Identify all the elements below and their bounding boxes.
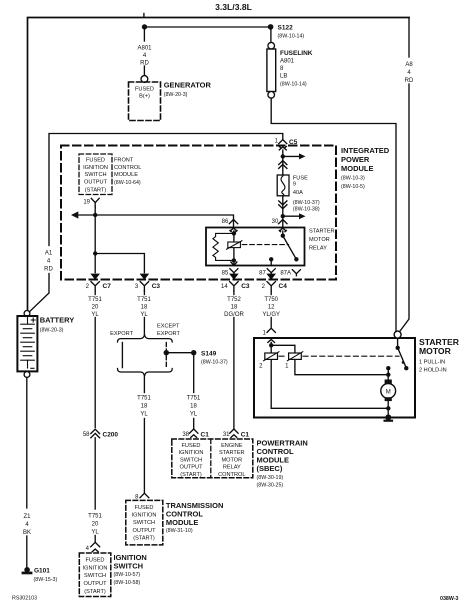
label INTEGRATED POWER MODULE [341,146,390,190]
svg-text:(8W-10-37): (8W-10-37) [201,360,228,366]
svg-text:STARTER: STARTER [309,228,335,234]
svg-text:RD: RD [44,267,53,273]
fuselink A801 8 LB [270,30,272,43]
TCM pin 8 [135,493,149,500]
svg-text:87A: 87A [280,270,291,276]
integrated power module dashed box [61,146,336,280]
svg-text:(8W-15-3): (8W-15-3) [34,577,58,583]
svg-text:SWITCH: SWITCH [180,457,202,463]
label STARTER MOTOR [419,337,460,374]
svg-text:T751: T751 [137,396,151,402]
svg-text:G101: G101 [34,568,50,575]
svg-text:(8W-10-37): (8W-10-37) [293,200,320,206]
svg-text:RS302103: RS302103 [12,596,37,602]
svg-text:DG/OR: DG/OR [224,312,244,318]
svg-text:(8W-10-38): (8W-10-38) [293,206,320,212]
svg-text:20: 20 [92,305,99,311]
svg-text:A1: A1 [45,251,53,257]
svg-text:MODULE: MODULE [114,172,138,178]
svg-text:T750: T750 [264,297,278,303]
svg-text:12: 12 [268,305,275,311]
PCM pin 38 C1 [182,429,209,438]
svg-text:C3: C3 [152,283,161,290]
svg-text:A8: A8 [405,62,413,68]
relay pin 87A exit [280,270,300,277]
junction dot on except-export branch [164,350,169,355]
svg-text:(8W-10-58): (8W-10-58) [114,580,141,586]
svg-text:9: 9 [293,182,296,188]
IPM exit 14 C3 [221,274,250,291]
starter B+ stud [394,331,401,338]
relay switch contact [281,234,285,238]
wire A1 feed to C5 [49,134,283,246]
wire ground bus hold-in [271,407,388,409]
svg-text:YL: YL [91,530,99,536]
svg-text:EXCEPT: EXCEPT [157,324,180,330]
svg-text:20: 20 [92,522,99,528]
IPM exit 2 C4 [262,274,288,291]
svg-text:YL: YL [140,312,148,318]
branch arrow left [78,214,95,216]
svg-text:GENERATOR: GENERATOR [164,81,212,90]
fuse clip lower double chevron [279,201,287,209]
export split brace top [118,334,173,342]
svg-text:(8W-10-5): (8W-10-5) [341,184,365,190]
junction dot [93,213,97,217]
mechanical linkage dashed [242,244,288,246]
svg-text:2 HOLD-IN: 2 HOLD-IN [419,368,447,374]
wire T751 18 YL S149 to PCM [193,355,195,392]
svg-text:EXPORT: EXPORT [157,331,180,337]
wire fused ignition switch output (start) vertical [94,207,96,272]
svg-text:(8W-10-14): (8W-10-14) [280,81,307,87]
svg-text:C1: C1 [201,431,210,438]
label BATTERY [40,315,75,333]
junction dot ground bus [386,406,390,410]
svg-text:T751: T751 [88,514,102,520]
svg-text:58: 58 [83,432,90,438]
svg-text:T751: T751 [187,396,201,402]
svg-text:18: 18 [141,404,148,410]
svg-text:MOTOR: MOTOR [419,346,452,356]
pull-in coil 1 [289,353,302,359]
svg-text:85: 85 [222,270,229,276]
wire branch to relay pin 86 [95,215,233,227]
wire branch to C3 exit [95,254,144,273]
svg-text:MODULE: MODULE [166,518,199,527]
svg-text:038W-3: 038W-3 [440,596,458,602]
battery terminal circle top [24,311,30,317]
relay pin 86 [222,219,238,232]
wire C5 to fuse [282,150,284,175]
svg-text:19: 19 [83,200,90,206]
svg-text:(8W-30-19): (8W-30-19) [257,475,284,481]
svg-text:SWITCH: SWITCH [84,172,106,178]
svg-text:RD: RD [140,61,149,67]
svg-text:(START): (START) [84,589,106,595]
relay pin 85 exit [222,262,238,277]
wire T750 12 YL/GY column 2 C4 to starter [270,291,272,295]
svg-text:RELAY: RELAY [309,245,327,251]
svg-text:(SBEC): (SBEC) [257,464,283,473]
wire fuselink to starter B+ stud [271,98,396,331]
junction dot generator branch [142,24,147,29]
svg-text:SWITCH: SWITCH [133,520,155,526]
svg-text:(START): (START) [133,535,155,541]
ignition switch pin 4 [86,542,100,552]
svg-text:ENGINE: ENGINE [221,443,243,449]
svg-text:30: 30 [272,219,279,225]
svg-text:87: 87 [259,270,266,276]
svg-text:FUSELINK: FUSELINK [280,50,313,57]
svg-text:IGNITION: IGNITION [179,450,204,456]
svg-text:OUTPUT: OUTPUT [133,528,157,534]
label STARTER MOTOR RELAY [309,228,335,251]
wire fuse to relay pin 30 [282,196,284,227]
svg-text:3.3L/3.8L: 3.3L/3.8L [215,2,252,12]
IPM exit 2 C7 [86,274,112,291]
svg-text:86: 86 [222,219,229,225]
IPM exit 3 C3 [135,274,161,291]
svg-text:POWER: POWER [341,155,370,164]
solenoid contact upper [397,338,399,347]
export merge brace bottom [118,369,173,377]
svg-text:S149: S149 [201,351,217,358]
svg-text:IGNITION: IGNITION [132,513,157,519]
pin 19 connector [83,198,99,207]
svg-text:T752: T752 [227,297,241,303]
svg-text:18: 18 [190,404,197,410]
svg-text:Z1: Z1 [23,514,31,520]
svg-text:FUSED: FUSED [86,558,105,564]
wire T752 18 DG/OR column 14 C3 to PCM [233,291,235,295]
svg-text:B(+): B(+) [139,94,150,100]
svg-text:(8W-20-3): (8W-20-3) [40,328,64,334]
svg-text:C200: C200 [103,432,119,439]
svg-text:(START): (START) [85,187,107,193]
wire hold-in winding 2 [270,342,272,408]
label S122 [278,25,305,40]
svg-text:RD: RD [405,78,414,84]
fuse clip upper double chevron [279,161,287,169]
ground G101 [24,567,30,573]
label A801 4 RD [137,46,152,67]
svg-text:A801: A801 [280,59,295,65]
PCM pin 31 C1 [223,429,250,438]
svg-text:T751: T751 [88,297,102,303]
relay pin 30 [272,219,287,232]
label GENERATOR [164,81,212,98]
svg-text:IGNITION: IGNITION [83,165,108,171]
wire splice bus S122 [145,26,271,28]
junction dot [93,251,97,255]
svg-text:(8W-31-10): (8W-31-10) [166,528,193,534]
svg-text:YL: YL [140,412,148,418]
svg-text:38: 38 [182,432,189,438]
wire export branch [121,343,123,368]
battery terminal circle bottom [24,372,30,378]
relay coil box [228,242,241,248]
svg-text:(8W-20-3): (8W-20-3) [164,92,188,98]
svg-text:LB: LB [280,74,287,80]
generator terminal circle [141,76,148,83]
svg-text:FUSE: FUSE [293,175,308,181]
svg-text:1 PULL-IN: 1 PULL-IN [419,360,445,366]
wire T751 18 YL column C3 to export split [143,291,145,295]
svg-text:MOTOR: MOTOR [221,457,242,463]
wire except-export branch dashed [165,343,167,368]
svg-text:FRONT: FRONT [114,158,134,164]
label A8 4 RD [405,62,414,84]
label POWERTRAIN CONTROL MODULE (SBEC) [257,439,308,489]
svg-text:BATTERY: BATTERY [40,315,75,324]
resistor zigzag [213,233,234,260]
relay pin 87 exit [259,269,275,277]
svg-text:YL: YL [190,412,198,418]
svg-text:MOTOR: MOTOR [309,237,330,243]
connector C200 [83,429,119,438]
fuse 9 40A feed: dot and arrow [281,154,285,158]
svg-text:40A: 40A [293,190,303,196]
relay coil circuit [233,231,235,266]
svg-text:RELAY: RELAY [223,465,241,471]
starter pin 1 [263,328,276,336]
svg-text:C3: C3 [241,283,250,290]
svg-text:(8W-10-64): (8W-10-64) [114,180,141,186]
PCM internal divider [210,439,212,478]
svg-text:(8W-10-14): (8W-10-14) [278,34,305,40]
svg-text:(8W-10-3): (8W-10-3) [341,176,365,182]
svg-text:FUSED: FUSED [182,443,201,449]
solenoid contact motor side [386,366,390,370]
svg-text:CONTROL: CONTROL [218,472,245,478]
wire battery positive rail (top) [28,18,410,311]
svg-text:SWITCH: SWITCH [84,573,106,579]
starter motor relay box [206,228,305,266]
svg-text:FUSED: FUSED [86,158,105,164]
hold-in coil 2 [265,353,278,359]
svg-text:EXPORT: EXPORT [110,331,133,337]
ignition switch dashed box [79,553,111,597]
wire pull-in branch [271,345,295,353]
svg-text:YL: YL [91,312,99,318]
svg-text:C1: C1 [241,431,250,438]
svg-text:IGNITION: IGNITION [83,565,108,571]
svg-text:BK: BK [23,530,31,536]
wire T751 18 YL to TCM [143,376,145,392]
svg-text:FUSED: FUSED [135,87,154,93]
svg-text:OUTPUT: OUTPUT [180,465,204,471]
svg-text:14: 14 [221,284,228,290]
svg-text:(START): (START) [180,472,202,478]
wire T751 20 YL C200 to ignition switch [94,438,96,509]
svg-text:OUTPUT: OUTPUT [84,180,108,186]
svg-text:(8W-10-57): (8W-10-57) [114,572,141,578]
battery [17,316,37,371]
svg-text:18: 18 [231,305,238,311]
svg-text:YL/GY: YL/GY [262,312,280,318]
solenoid linkage dashed [279,355,399,357]
svg-text:M: M [386,389,391,395]
label FRONT CONTROL MODULE [114,158,141,186]
svg-text:STARTER: STARTER [219,450,245,456]
svg-text:(8W-30-25): (8W-30-25) [257,483,284,489]
transmission control module dashed box [126,500,163,545]
label EXCEPT EXPORT [157,324,180,337]
label A1 4 RD [44,251,53,273]
splice S149 [166,352,193,354]
solenoid switch blade [398,348,407,368]
powertrain control module dashed box [172,439,253,478]
starter entry chevron [268,339,275,342]
generator dashed box [129,82,161,121]
wire A8 4 RD to starter motor [408,18,410,58]
motor M [387,375,389,380]
front control module dashed box: FUSED IGNITION SWITCH OUTPUT (START) [79,154,112,195]
svg-text:SWITCH: SWITCH [114,561,144,570]
label IGNITION SWITCH [114,553,147,586]
svg-text:18: 18 [141,305,148,311]
svg-text:S122: S122 [278,25,294,32]
splice S122 dot [268,24,274,30]
connector C5 pin 1 [275,139,298,150]
svg-text:FUSED: FUSED [135,505,154,511]
starter case ground [385,414,391,420]
svg-text:T751: T751 [137,297,151,303]
wire Z1 4 BK battery to ground [26,377,28,508]
svg-text:C7: C7 [103,283,112,290]
svg-text:INTEGRATED: INTEGRATED [341,146,390,155]
wire T751 20 YL column C7 to C200 [94,291,96,295]
svg-text:MODULE: MODULE [341,164,374,173]
starter motor box [254,338,415,418]
tick above rail [143,14,145,17]
svg-text:C4: C4 [279,283,288,290]
wire A801 4 RD generator drop [143,30,145,42]
svg-text:CONTROL: CONTROL [114,165,141,171]
relay pin 87 contact [269,257,273,261]
label TRANSMISSION CONTROL MODULE [166,501,224,534]
junction dot with arrow [281,214,285,218]
fuse 9 40A [277,175,289,196]
svg-text:OUTPUT: OUTPUT [84,581,108,587]
svg-text:A801: A801 [137,46,152,52]
